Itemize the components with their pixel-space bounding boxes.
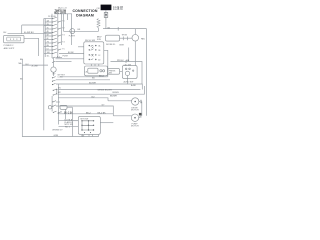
svg-text:BU BK: BU BK <box>68 52 74 54</box>
svg-text:T3: T3 <box>62 34 64 36</box>
svg-text:AUTO SW: AUTO SW <box>124 80 134 83</box>
svg-text:WH/BK GY: WH/BK GY <box>52 129 63 131</box>
svg-text:BU: BU <box>20 59 23 61</box>
svg-text:9J: 9J <box>47 48 49 50</box>
svg-text:P-2: P-2 <box>57 57 60 59</box>
svg-text:PUSH: PUSH <box>63 56 69 58</box>
svg-text:A-BK: A-BK <box>131 84 136 87</box>
svg-text:T5: T5 <box>62 48 64 50</box>
svg-text:TH BK: TH BK <box>122 34 128 36</box>
svg-text:BU: BU <box>92 96 95 98</box>
svg-text:BU: BU <box>26 64 29 66</box>
svg-text:SW: SW <box>109 73 112 75</box>
svg-text:WH/BK BK/WH: WH/BK BK/WH <box>98 89 113 91</box>
svg-text:COLD: COLD <box>58 77 64 79</box>
svg-text:AND SUPP: AND SUPP <box>4 47 15 50</box>
svg-text:GRN: GRN <box>54 135 59 137</box>
svg-text:BK/R: BK/R <box>120 44 125 46</box>
svg-text:BK/WH: BK/WH <box>113 92 120 94</box>
svg-text:POWER C: POWER C <box>4 45 14 47</box>
svg-text:T1: T1 <box>62 20 64 22</box>
svg-text:4L-3W BU: 4L-3W BU <box>24 32 34 34</box>
svg-text:T4: T4 <box>62 41 64 43</box>
svg-text:F-HTR: F-HTR <box>69 35 76 37</box>
svg-text:BU/WH: BU/WH <box>89 83 96 85</box>
svg-text:BU-6: BU-6 <box>99 76 105 78</box>
svg-text:CN: CN <box>96 8 100 10</box>
svg-text:PR BU: PR BU <box>117 60 124 62</box>
svg-text:4A-1C 22: 4A-1C 22 <box>58 6 68 9</box>
svg-text:G-8: G-8 <box>81 135 84 137</box>
svg-text:M2: M2 <box>58 92 61 94</box>
svg-text:X2B: X2B <box>97 39 101 41</box>
svg-text:MDL 100-B: MDL 100-B <box>54 13 66 15</box>
svg-text:BU: BU <box>3 32 6 34</box>
svg-text:MOTOR: MOTOR <box>131 110 139 112</box>
svg-text:11L: 11L <box>47 55 50 57</box>
svg-text:25 26 4B: 25 26 4B <box>48 16 56 18</box>
svg-text:BK/WH: BK/WH <box>110 96 117 98</box>
svg-text:DIAGRAM: DIAGRAM <box>76 13 94 17</box>
svg-text:NO 2: NO 2 <box>65 127 71 129</box>
svg-text:NOISE FL: NOISE FL <box>106 44 116 46</box>
svg-text:MTR SW: MTR SW <box>81 118 89 120</box>
svg-text:FAN: FAN <box>141 38 145 41</box>
svg-text:BK-2 BK: BK-2 BK <box>98 113 107 115</box>
svg-text:MOTOR: MOTOR <box>131 126 139 128</box>
svg-text:41-2B 36: 41-2B 36 <box>113 8 123 11</box>
svg-text:BK-2 BK: BK-2 BK <box>64 113 73 115</box>
svg-text:W-LVL SW: W-LVL SW <box>85 40 95 42</box>
svg-text:2L-4W: 2L-4W <box>32 66 38 68</box>
svg-text:M1: M1 <box>58 88 61 90</box>
svg-text:BU: BU <box>92 78 95 80</box>
svg-text:T2: T2 <box>62 27 64 29</box>
svg-text:LID SW: LID SW <box>124 64 131 66</box>
